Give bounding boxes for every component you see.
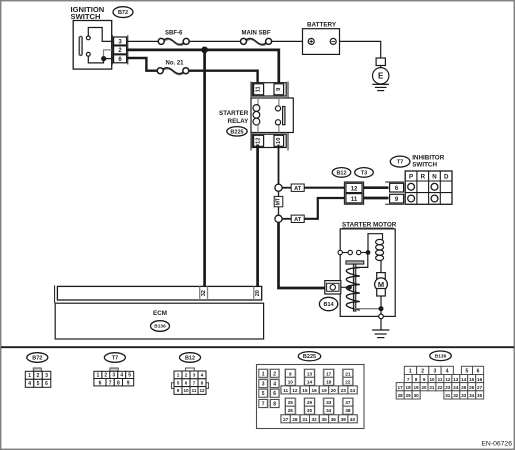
svg-text:34: 34	[326, 408, 332, 413]
svg-text:18: 18	[326, 379, 332, 384]
svg-text:4: 4	[120, 373, 123, 379]
svg-text:20: 20	[331, 388, 337, 393]
svg-text:17: 17	[326, 371, 332, 376]
svg-text:19: 19	[413, 385, 419, 390]
wire: upper circle to AT box 1	[282, 187, 291, 189]
relay body box	[251, 98, 293, 133]
svg-text:SWITCH: SWITCH	[71, 12, 101, 21]
svg-text:25: 25	[461, 385, 467, 390]
wire: No.21 fuse to starter relay pin 11	[189, 71, 258, 85]
svg-text:31: 31	[302, 417, 308, 422]
fuse No. 21	[157, 60, 189, 74]
B225 view pin group 13-16	[299, 369, 319, 395]
relay top pin 9 cell	[274, 84, 284, 95]
ECM pin 32 cell	[200, 286, 208, 300]
wire: plunger bottom to motor node (gray)	[355, 308, 381, 310]
svg-text:ECM: ECM	[153, 310, 167, 317]
B225 view pin group 33-36	[319, 397, 339, 423]
field coil	[376, 239, 384, 260]
svg-text:B136: B136	[154, 324, 166, 330]
wire: to starter ground	[380, 319, 382, 330]
svg-text:INHIBITOR: INHIBITOR	[412, 154, 445, 161]
svg-text:27: 27	[283, 417, 289, 422]
svg-text:11: 11	[256, 85, 262, 92]
solenoid junction dot	[347, 285, 352, 290]
motor brush bottom	[377, 289, 386, 297]
B225 view pin group 9-12	[280, 369, 300, 395]
svg-text:8: 8	[415, 377, 418, 382]
battery minus terminal	[330, 38, 336, 44]
ignition pin 3 cell	[114, 37, 127, 45]
svg-text:6: 6	[99, 380, 102, 386]
svg-text:5: 5	[128, 373, 131, 379]
svg-text:12: 12	[351, 187, 358, 193]
svg-text:28: 28	[398, 393, 404, 398]
ground terminal square	[376, 58, 385, 66]
svg-text:9: 9	[423, 377, 426, 382]
figure number EN-06726	[481, 441, 512, 448]
wire through MT label	[278, 191, 280, 215]
ECM label	[153, 310, 167, 317]
svg-text:21: 21	[345, 371, 351, 376]
svg-text:12: 12	[292, 388, 298, 393]
ignition pin 2 cell	[114, 46, 127, 54]
svg-text:6: 6	[477, 369, 480, 375]
solenoid plunger T bar	[346, 261, 364, 311]
svg-text:11: 11	[438, 377, 443, 382]
svg-text:1: 1	[28, 373, 31, 379]
connector label B12 oval	[332, 168, 351, 178]
connector label B225 oval	[227, 127, 247, 136]
junction node on pin2 wire	[201, 47, 208, 54]
svg-text:22: 22	[345, 379, 351, 384]
svg-text:3: 3	[193, 373, 196, 378]
svg-text:29: 29	[406, 393, 412, 398]
svg-text:RELAY: RELAY	[228, 118, 250, 125]
svg-text:15: 15	[469, 377, 475, 382]
B225 view pin group 25-28	[280, 397, 300, 423]
AT label box 2	[291, 215, 304, 223]
svg-text:3: 3	[262, 382, 265, 388]
B136 view grid row4	[396, 391, 483, 399]
svg-text:EN-06726: EN-06726	[481, 441, 512, 448]
ECM connector bracket	[54, 285, 56, 303]
wire: SBF-6 to MAIN SBF	[189, 40, 240, 42]
svg-text:27: 27	[477, 385, 483, 390]
connector view B225 oval	[298, 352, 320, 361]
svg-text:38: 38	[345, 408, 351, 413]
starter relay label	[219, 110, 249, 125]
svg-text:26: 26	[469, 385, 475, 390]
ignition switch SW1 box	[73, 21, 112, 70]
svg-text:B225: B225	[303, 354, 316, 360]
connector label T3 oval	[355, 168, 374, 178]
B136 view grid row3	[396, 383, 483, 391]
svg-text:34: 34	[469, 393, 475, 398]
relay switch contacts	[275, 98, 280, 133]
relay coil	[253, 98, 260, 133]
box edge ground circle	[379, 309, 384, 319]
B14 connector to solenoid	[325, 281, 341, 294]
ground symbol under E	[372, 84, 389, 90]
battery label	[307, 21, 337, 28]
wire: AT box 1 to B12 pin 12	[304, 187, 345, 189]
svg-text:25: 25	[288, 400, 294, 405]
wire: junction down to ECM pin 32	[203, 50, 206, 287]
svg-text:T7: T7	[112, 355, 118, 361]
motor ground node dot	[379, 306, 384, 311]
wire: pin 11 to inhibitor pin 9	[364, 197, 389, 200]
svg-text:1: 1	[177, 373, 180, 378]
svg-text:4: 4	[28, 381, 31, 387]
wire: pin 12 to inhibitor pin 6	[364, 186, 389, 189]
svg-text:23: 23	[445, 385, 451, 390]
B72 view tab	[33, 368, 41, 371]
svg-text:7: 7	[193, 380, 196, 385]
T7 view grid top row	[94, 371, 134, 378]
svg-text:P: P	[409, 174, 413, 181]
svg-text:4: 4	[446, 369, 449, 375]
inhibitor switch position table	[405, 171, 452, 204]
svg-text:30: 30	[307, 408, 313, 413]
svg-text:1: 1	[97, 373, 100, 379]
connector label B72 oval	[113, 7, 133, 18]
svg-text:35: 35	[477, 393, 483, 398]
svg-text:26: 26	[288, 408, 294, 413]
ignition switch label	[71, 5, 105, 21]
solenoid contact terminals	[338, 250, 368, 254]
MT label box	[274, 196, 283, 206]
svg-text:B136: B136	[435, 354, 447, 360]
svg-text:18: 18	[406, 385, 412, 390]
junction dot pins 2/6 tie	[101, 56, 106, 61]
B136 view grid row1	[404, 366, 483, 374]
svg-text:3: 3	[434, 369, 437, 375]
svg-text:32: 32	[453, 393, 459, 398]
svg-text:39: 39	[341, 417, 347, 422]
wire: motor to bottom node	[380, 296, 382, 309]
svg-text:8: 8	[273, 402, 276, 408]
svg-text:AT: AT	[294, 217, 302, 223]
svg-text:11: 11	[351, 197, 358, 203]
svg-text:4: 4	[201, 373, 204, 378]
svg-text:12: 12	[256, 138, 262, 144]
svg-text:21: 21	[429, 385, 435, 390]
solenoid spring	[346, 268, 360, 311]
relay bottom pin 12 cell	[254, 135, 264, 146]
wire: pin 6 to No.21 fuse	[127, 58, 157, 71]
B225 view pin group 17-20	[319, 369, 339, 395]
inhibitor pin 9 cell	[390, 194, 404, 203]
svg-text:D: D	[444, 174, 449, 181]
relay bottom pin 10 cell	[274, 135, 284, 146]
svg-text:32: 32	[201, 290, 207, 296]
connector label T7 oval	[390, 156, 410, 167]
svg-text:17: 17	[398, 385, 404, 390]
svg-text:2: 2	[421, 369, 424, 375]
svg-text:1: 1	[262, 371, 265, 377]
svg-text:11: 11	[192, 388, 197, 393]
svg-text:9: 9	[127, 380, 130, 386]
svg-text:2: 2	[273, 371, 276, 377]
svg-text:B225: B225	[230, 129, 243, 135]
svg-text:9: 9	[177, 388, 180, 393]
wire: battery minus to chassis ground E	[340, 41, 381, 58]
svg-text:30: 30	[414, 393, 420, 398]
battery BAT1 box	[303, 29, 340, 55]
svg-text:M: M	[378, 280, 384, 289]
svg-text:14: 14	[307, 379, 313, 384]
MT connector upper circle	[275, 184, 282, 191]
inhibitor contact circles P/N rows	[408, 183, 438, 202]
wire: internal tie pin6 node up to pin 2 (gray)	[104, 50, 114, 59]
svg-text:5: 5	[262, 391, 265, 397]
B12/T3 pin 11 cell	[346, 194, 362, 203]
contact junction dot	[366, 250, 371, 255]
ECM box	[55, 303, 263, 339]
motor M circle	[375, 278, 388, 291]
wire: MAIN SBF to battery	[272, 40, 303, 42]
svg-text:35: 35	[321, 417, 327, 422]
svg-text:T3: T3	[361, 170, 367, 176]
svg-text:15: 15	[302, 388, 308, 393]
svg-text:10: 10	[276, 138, 282, 144]
svg-text:B14: B14	[324, 302, 335, 308]
svg-text:12: 12	[199, 388, 205, 393]
svg-text:MAIN SBF: MAIN SBF	[242, 30, 271, 36]
svg-text:SWITCH: SWITCH	[412, 162, 437, 169]
svg-text:E: E	[378, 72, 384, 81]
B12/T3 connector outline	[344, 182, 363, 204]
relay top pin 11 cell	[254, 84, 264, 95]
svg-text:3: 3	[45, 373, 48, 379]
svg-text:N: N	[432, 174, 437, 181]
ignition switch contact circles	[86, 36, 90, 56]
svg-text:5: 5	[466, 369, 469, 375]
section separator line	[1, 346, 514, 348]
ignition pin 6 cell	[114, 55, 127, 63]
wire: AT box 2 up to B12 pin 11	[304, 198, 345, 219]
wire: junction up to field coil	[368, 234, 383, 253]
wire: relay pin 12 down to ECM pin 20	[256, 145, 259, 287]
ECM connector strip	[57, 286, 261, 300]
B225 view pin group 21-24	[338, 369, 358, 395]
svg-text:16: 16	[477, 377, 483, 382]
relay top connector bracket	[251, 82, 288, 99]
B72 view grid	[25, 371, 51, 387]
B225 view outer box	[257, 365, 365, 429]
svg-text:MT: MT	[276, 197, 282, 205]
wire: relay pin 10 down to MT connector	[278, 145, 280, 185]
svg-text:12: 12	[445, 377, 451, 382]
AT label box 1	[291, 184, 304, 192]
B12/T3 pin 12 cell	[346, 183, 362, 192]
svg-text:7: 7	[407, 377, 410, 382]
B225 view pin group 37-40	[338, 397, 358, 423]
svg-text:37: 37	[345, 400, 351, 405]
wire: switch top contact to pin 3	[88, 28, 113, 42]
wire: field coil to motor	[380, 260, 382, 272]
svg-text:24: 24	[453, 385, 459, 390]
svg-text:22: 22	[437, 385, 443, 390]
svg-text:B72: B72	[118, 10, 128, 16]
svg-text:28: 28	[292, 417, 298, 422]
svg-text:32: 32	[311, 417, 317, 422]
svg-text:33: 33	[461, 393, 467, 398]
wire: lower circle to AT box 2	[282, 218, 291, 220]
svg-text:STARTER: STARTER	[219, 110, 249, 117]
svg-text:8: 8	[117, 380, 120, 386]
ignition switch key bar	[79, 37, 82, 56]
inhibitor pin 6 cell	[390, 183, 404, 192]
svg-text:SBF-6: SBF-6	[165, 30, 183, 36]
connector label B14 oval	[319, 297, 337, 310]
ground point E circle	[373, 66, 389, 85]
ignition connector bracket	[112, 35, 127, 64]
fuse MAIN SBF	[241, 30, 272, 45]
svg-text:8: 8	[201, 380, 204, 385]
MT connector lower circle	[275, 215, 282, 222]
svg-text:7: 7	[262, 402, 265, 408]
svg-text:11: 11	[283, 388, 288, 393]
svg-text:24: 24	[350, 388, 356, 393]
connector label B136 oval (ECM)	[151, 321, 170, 332]
inhibitor connector bracket	[385, 182, 404, 204]
svg-text:16: 16	[311, 388, 317, 393]
svg-text:2: 2	[185, 373, 188, 378]
fuse SBF-6	[158, 30, 189, 45]
svg-text:2: 2	[104, 373, 107, 379]
relay bottom connector bracket	[251, 133, 288, 151]
B136 view grid row2	[404, 375, 483, 383]
svg-text:5: 5	[177, 380, 180, 385]
svg-text:13: 13	[307, 371, 313, 376]
svg-text:19: 19	[321, 388, 327, 393]
ECM pin 20 cell	[254, 286, 261, 300]
svg-text:20: 20	[421, 385, 427, 390]
svg-text:R: R	[421, 174, 426, 181]
svg-text:AT: AT	[294, 186, 302, 192]
inhibitor switch label	[412, 154, 445, 168]
battery plus terminal	[308, 38, 314, 44]
svg-text:STARTER MOTOR: STARTER MOTOR	[342, 222, 397, 229]
svg-text:7: 7	[109, 380, 112, 386]
svg-text:31: 31	[445, 393, 451, 398]
B225 view pin group 29-32	[299, 397, 319, 423]
connector view B136 oval	[430, 351, 452, 361]
svg-text:2: 2	[37, 373, 40, 379]
wire: MT lower circle down and right to starter motor B14	[279, 222, 325, 288]
starter ground symbol	[372, 330, 389, 338]
starter motor label	[342, 222, 397, 229]
svg-text:1: 1	[409, 369, 412, 375]
relay armature bar	[283, 107, 285, 125]
svg-text:36: 36	[331, 417, 337, 422]
starter motor M1 box	[340, 229, 395, 317]
svg-text:13: 13	[453, 377, 459, 382]
wire: switch bottom contact to pin 6	[88, 56, 113, 63]
B12 view grid	[174, 371, 206, 394]
svg-text:10: 10	[429, 377, 435, 382]
wire: pin 3 to SBF-6 fuse	[127, 40, 159, 42]
B225 left pin grid 1-8	[258, 369, 280, 409]
svg-text:T7: T7	[397, 160, 403, 166]
svg-text:29: 29	[307, 400, 313, 405]
T7 view tab	[110, 368, 118, 371]
svg-text:3: 3	[112, 373, 115, 379]
svg-text:BATTERY: BATTERY	[307, 21, 337, 28]
svg-text:23: 23	[341, 388, 347, 393]
svg-text:4: 4	[273, 382, 276, 388]
svg-text:6: 6	[185, 380, 188, 385]
svg-text:9: 9	[289, 371, 292, 376]
svg-text:5: 5	[37, 381, 40, 387]
svg-text:20: 20	[255, 290, 261, 296]
svg-text:B12: B12	[185, 355, 195, 361]
B12 view side notches	[172, 383, 209, 389]
svg-text:6: 6	[273, 391, 276, 397]
svg-text:6: 6	[45, 381, 48, 387]
svg-text:33: 33	[326, 400, 332, 405]
wire: B14 to solenoid junction	[341, 286, 349, 288]
svg-text:10: 10	[183, 388, 189, 393]
svg-text:B12: B12	[336, 170, 346, 176]
svg-text:B72: B72	[32, 355, 42, 361]
motor brush top	[377, 273, 386, 281]
svg-text:10: 10	[288, 379, 294, 384]
wire: contact dot down to solenoid coil	[356, 253, 368, 268]
connector view B12 oval	[180, 353, 201, 363]
svg-text:40: 40	[350, 417, 356, 422]
connector view T7 oval	[104, 353, 125, 363]
wire: pin 2 thick feed to starter relay pin 6	[127, 50, 279, 85]
connector view B72 oval	[27, 353, 48, 363]
B12 view tab	[186, 368, 195, 371]
svg-text:14: 14	[461, 377, 467, 382]
T7 view grid bottom row	[94, 379, 134, 387]
svg-text:No. 21: No. 21	[165, 60, 184, 66]
